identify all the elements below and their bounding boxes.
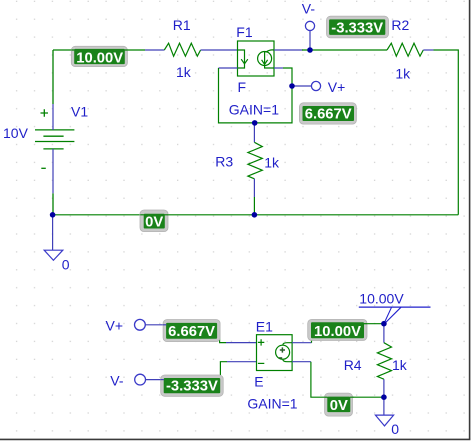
svg-text:R3: R3 <box>215 154 233 170</box>
wire V+ to E1 plus input <box>164 325 226 343</box>
wire F1 bottom-right stub <box>274 67 283 69</box>
resistor R1 <box>164 43 200 56</box>
canvas right border <box>469 0 471 439</box>
wire E1 output bottom <box>292 361 311 363</box>
svg-text:0V: 0V <box>330 398 348 414</box>
svg-text:V+: V+ <box>106 318 124 334</box>
junction R3 bottom <box>252 212 258 218</box>
svg-text:10.00V: 10.00V <box>314 324 361 340</box>
bias label -3.333V top <box>327 16 389 38</box>
svg-text:0: 0 <box>391 421 399 437</box>
wire top rail from V1 to R1 <box>53 49 145 51</box>
wire F1 lower loop <box>219 68 293 123</box>
wire R3 bottom lead <box>253 179 255 197</box>
wire over 6.667V bottom label border <box>163 324 166 326</box>
node V+ top <box>292 85 311 87</box>
voltage source V1 <box>35 50 74 214</box>
bias label 6.667V top <box>299 103 356 124</box>
svg-text:10.00V: 10.00V <box>359 290 404 306</box>
canvas bottom border <box>0 438 470 440</box>
wire over 10.00V bottom label border <box>364 323 368 325</box>
svg-text:R4: R4 <box>344 357 362 373</box>
wire F1 to V- junction <box>274 49 303 51</box>
wire R3 to bottom rail <box>253 197 255 215</box>
svg-text:1k: 1k <box>392 357 408 373</box>
wire R4 bottom lead <box>383 379 385 397</box>
ground top <box>52 215 54 250</box>
svg-text:10V: 10V <box>3 125 29 141</box>
svg-text:F: F <box>238 79 247 95</box>
wire over 0V top label border <box>140 214 168 216</box>
V1 bottom pin <box>52 149 54 193</box>
svg-text:E1: E1 <box>256 319 273 335</box>
svg-text:-3.333V: -3.333V <box>166 379 218 395</box>
wire V- junction to R2 <box>302 49 387 51</box>
svg-text:6.667V: 6.667V <box>168 324 215 340</box>
svg-text:0: 0 <box>62 256 70 272</box>
wire V- to E1 minus input <box>164 362 227 380</box>
wire over 0V bottom label border <box>324 396 353 398</box>
bias label 10.00V top <box>71 46 127 66</box>
svg-text:1k: 1k <box>264 155 280 171</box>
svg-text:GAIN=1: GAIN=1 <box>247 396 297 412</box>
node V- top <box>309 31 311 51</box>
resistor R2 <box>387 43 423 56</box>
svg-text:GAIN=1: GAIN=1 <box>229 102 279 118</box>
junction E1 output <box>381 321 387 327</box>
net label 10.00V with callout <box>359 290 431 323</box>
svg-text:0V: 0V <box>145 215 163 231</box>
junction V1-gnd <box>50 212 56 218</box>
wire R4 top lead <box>383 324 385 343</box>
svg-text:1k: 1k <box>395 66 411 82</box>
svg-text:V1: V1 <box>71 104 88 120</box>
svg-text:R1: R1 <box>173 17 191 33</box>
junction R4 bottom <box>381 394 387 400</box>
svg-text:E: E <box>254 374 263 390</box>
svg-text:1k: 1k <box>176 64 192 80</box>
current-controlled current source F1 <box>238 41 275 76</box>
bias label 10.00V bottom <box>308 319 367 340</box>
svg-text:V-: V- <box>302 1 316 17</box>
svg-text:10.00V: 10.00V <box>76 50 123 66</box>
wire F1 bottom-left stub <box>219 67 238 69</box>
svg-text:6.667V: 6.667V <box>305 106 352 122</box>
svg-text:V+: V+ <box>328 79 346 95</box>
resistor R4 <box>377 343 391 380</box>
wire R1 to F1 <box>201 49 238 51</box>
junction V+ top <box>289 83 295 89</box>
wire bottom rail <box>53 214 459 216</box>
junction V- top <box>307 47 313 53</box>
wire R1 left lead <box>145 49 164 51</box>
wire over 10.00V top label border <box>71 49 128 51</box>
svg-text:V-: V- <box>110 373 124 389</box>
voltage-controlled voltage source E1 <box>257 335 293 371</box>
wire R2 right lead <box>423 49 433 51</box>
wire E1 output top <box>292 342 311 344</box>
ground bottom <box>383 397 385 415</box>
junction R3 top <box>252 120 258 126</box>
resistor R3 <box>248 142 262 179</box>
svg-text:-3.333V: -3.333V <box>331 21 383 37</box>
svg-text:F1: F1 <box>236 24 253 40</box>
svg-text:R2: R2 <box>391 17 409 33</box>
bias label 6.667V bottom <box>163 320 220 342</box>
V1 top pin <box>52 104 54 130</box>
bias label -3.333V bottom <box>161 375 224 396</box>
wire over -3.333V bottom label border <box>161 379 164 381</box>
wire right edge down <box>434 50 459 215</box>
bias label 0V top <box>140 210 168 232</box>
wire R3 top lead <box>253 123 255 142</box>
bias label 0V bottom <box>325 393 353 416</box>
